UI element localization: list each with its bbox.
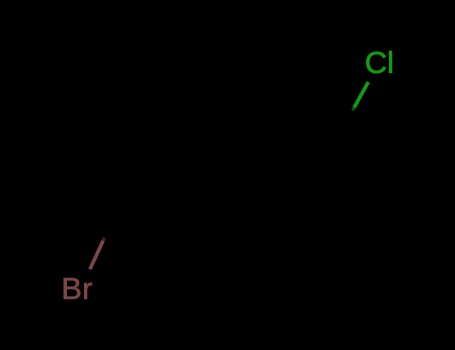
svg-text:Cl: Cl bbox=[365, 45, 394, 80]
chain bonds C-C (black on black) bbox=[118, 195, 243, 209]
bond Cl half (green) bbox=[354, 82, 368, 108]
bond C-Br carbon half (black on black) bbox=[104, 208, 118, 239]
bond C-Cl carbon half (black on black) bbox=[338, 110, 353, 138]
bond Cl half fade tip bbox=[353, 108, 355, 111]
bond Br half fade tip bbox=[103, 238, 104, 241]
bond Br half (brown) bbox=[90, 241, 103, 269]
benzene ring (carbon bonds, black on black) bbox=[243, 138, 370, 249]
svg-text:Br: Br bbox=[61, 271, 93, 306]
